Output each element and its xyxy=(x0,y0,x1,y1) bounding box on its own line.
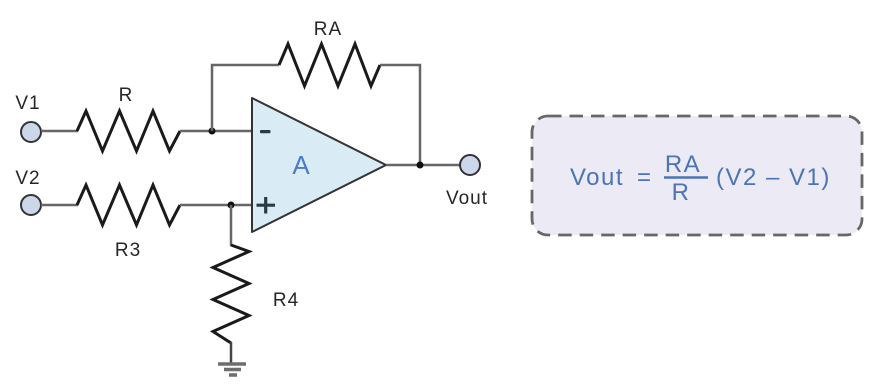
wire R4 to ground xyxy=(230,342,233,364)
resistor R xyxy=(77,111,180,151)
formula box xyxy=(532,116,862,235)
svg-text:V1: V1 xyxy=(15,93,40,114)
formula text Vout = RA/R (V2 - V1) xyxy=(570,151,831,206)
ground xyxy=(218,364,246,375)
wire R3 to non-inverting input xyxy=(180,204,252,207)
resistor RA xyxy=(279,44,380,86)
op-amp A xyxy=(252,98,386,232)
junction at non-inverting input xyxy=(228,202,235,209)
junction at output xyxy=(417,162,424,169)
svg-text:R3: R3 xyxy=(115,240,141,261)
svg-text:R: R xyxy=(672,179,691,206)
wire V1 to R xyxy=(41,130,78,133)
resistor R4 xyxy=(213,245,249,343)
wire feedback right segment xyxy=(380,65,420,165)
svg-text:Vout: Vout xyxy=(570,164,624,191)
svg-text:RA: RA xyxy=(665,151,701,178)
terminal Vout xyxy=(460,155,480,175)
terminal V2 xyxy=(21,195,41,215)
wire V2 to R3 xyxy=(41,204,78,207)
wire R to inverting input xyxy=(180,130,252,133)
terminal V1 xyxy=(21,122,41,142)
svg-text:V2: V2 xyxy=(15,168,40,189)
wire output to Vout xyxy=(386,164,460,167)
svg-text:Vout: Vout xyxy=(446,188,488,209)
svg-text:=: = xyxy=(637,164,653,191)
svg-text:A: A xyxy=(292,150,310,180)
junction at inverting input xyxy=(209,128,216,135)
non-inverting input plus sign xyxy=(257,197,276,214)
svg-text:RA: RA xyxy=(314,19,342,40)
wire feedback left segment xyxy=(212,65,279,131)
svg-text:(V2 – V1): (V2 – V1) xyxy=(716,164,831,191)
svg-text:R4: R4 xyxy=(273,290,299,311)
inverting input minus sign xyxy=(260,130,271,133)
svg-text:R: R xyxy=(119,85,134,106)
wire junction to R4 xyxy=(230,205,233,246)
resistor R3 xyxy=(77,185,180,225)
